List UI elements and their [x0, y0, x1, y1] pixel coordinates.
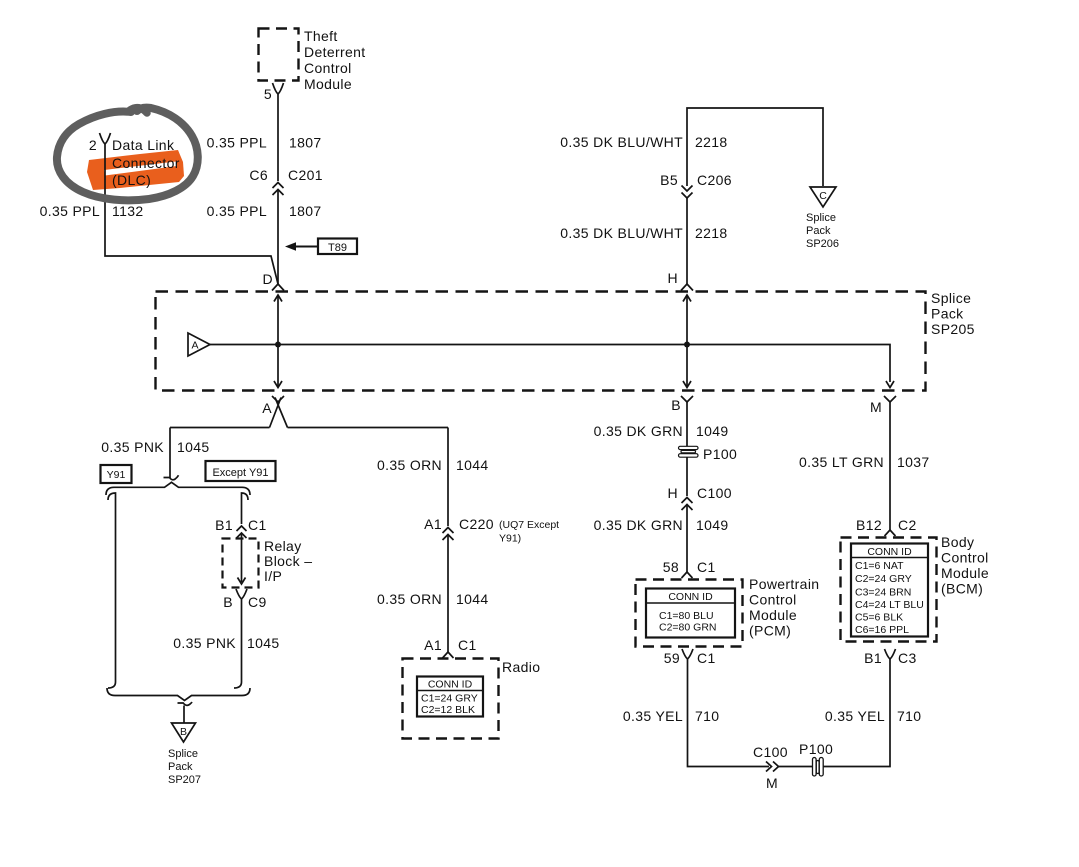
svg-text:0.35 PPL: 0.35 PPL: [207, 135, 267, 151]
svg-text:C3=24 BRN: C3=24 BRN: [855, 587, 911, 599]
svg-text:C3: C3: [898, 650, 917, 666]
svg-text:B1: B1: [864, 650, 882, 666]
svg-text:C201: C201: [288, 167, 323, 183]
svg-text:(BCM): (BCM): [941, 581, 983, 597]
svg-text:710: 710: [695, 708, 719, 724]
wire fork at node A: [170, 398, 448, 428]
BCM entry terminal pin B12 / C2: [856, 517, 917, 536]
svg-text:C220: C220: [459, 516, 494, 532]
wire 710 (0.35 YEL) right segment: [823, 659, 921, 767]
svg-text:0.35 PPL: 0.35 PPL: [40, 203, 100, 219]
option label Except Y91: [206, 461, 276, 481]
svg-text:Relay: Relay: [264, 538, 302, 554]
svg-text:2218: 2218: [695, 225, 728, 241]
svg-text:0.35 PNK: 0.35 PNK: [101, 439, 164, 455]
wire 1049 (0.35 DK GRN) from node B to P100: [594, 402, 729, 447]
svg-text:Module: Module: [941, 565, 989, 581]
svg-text:C1: C1: [697, 650, 716, 666]
node A exit terminal of splice pack SP205: [262, 396, 284, 416]
svg-text:0.35 PPL: 0.35 PPL: [207, 203, 267, 219]
svg-text:SP206: SP206: [806, 238, 839, 250]
wire: Y91 option branch: [108, 493, 116, 688]
svg-text:Control: Control: [941, 550, 989, 566]
svg-text:C5=6 BLK: C5=6 BLK: [855, 612, 903, 624]
callout T89 with arrow: [285, 239, 357, 255]
module: Powertrain Control Module (PCM): [636, 576, 820, 647]
svg-text:1807: 1807: [289, 135, 322, 151]
BCM exit terminal pin B1 / C3: [864, 649, 916, 666]
wire 1132 (0.35 PPL) from DLC pin 2 to node D: [40, 144, 278, 284]
svg-text:0.35 DK BLU/WHT: 0.35 DK BLU/WHT: [560, 225, 683, 241]
module: Relay Block I/P: [223, 538, 313, 588]
PCM CONN ID table: [646, 589, 735, 638]
svg-text:B: B: [180, 726, 187, 738]
svg-text:C2: C2: [898, 517, 917, 533]
splice pack SP207 triangle B: [168, 723, 201, 786]
svg-text:C: C: [819, 190, 827, 202]
wire 1045 (0.35 PNK) upper segment: [101, 428, 209, 480]
svg-text:A1: A1: [424, 516, 442, 532]
svg-text:Pack: Pack: [168, 761, 193, 773]
connector C1 pin B1 at relay block: [215, 517, 266, 538]
svg-text:B12: B12: [856, 517, 882, 533]
svg-text:B1: B1: [215, 517, 233, 533]
svg-text:2218: 2218: [695, 134, 728, 150]
splice pack SP205 internal bus with triangle A: [188, 333, 894, 388]
node D entry terminal into splice pack SP205: [263, 271, 284, 291]
svg-text:SP205: SP205: [931, 321, 975, 337]
wire 1044 (0.35 ORN) upper segment: [377, 428, 489, 527]
svg-text:(PCM): (PCM): [749, 623, 791, 639]
pin 5 terminal of theft deterrent module: [264, 83, 284, 102]
splice pack SP206 triangle C: [806, 187, 839, 250]
svg-text:Powertrain: Powertrain: [749, 576, 819, 592]
svg-text:CONN ID: CONN ID: [867, 546, 912, 558]
svg-text:0.35 ORN: 0.35 ORN: [377, 591, 442, 607]
junction dot at D branch: [275, 342, 281, 348]
module: Body Control Module (BCM): [841, 534, 990, 642]
wire 2218 (0.35 DK BLU/WHT) from C206 to node H: [560, 198, 727, 284]
svg-text:A: A: [262, 400, 272, 416]
svg-text:CONN ID: CONN ID: [668, 591, 713, 603]
svg-text:H: H: [668, 485, 678, 501]
svg-text:0.35 DK GRN: 0.35 DK GRN: [594, 517, 683, 533]
wire 1049 (0.35 DK GRN) from C100 to PCM: [594, 505, 729, 573]
svg-text:C6=16 PPL: C6=16 PPL: [855, 624, 909, 636]
svg-text:Y91: Y91: [107, 469, 126, 481]
svg-text:Deterrent: Deterrent: [304, 44, 366, 60]
relay block exit terminal pin B / C9: [223, 589, 266, 610]
BCM CONN ID table: [851, 544, 928, 637]
svg-text:59: 59: [664, 650, 680, 666]
svg-text:Splice: Splice: [931, 290, 971, 306]
svg-text:Pack: Pack: [806, 225, 831, 237]
svg-text:1037: 1037: [897, 454, 930, 470]
splice pack SP205 dashed box: [156, 290, 975, 391]
svg-text:0.35 YEL: 0.35 YEL: [623, 708, 683, 724]
svg-text:C4=24 LT BLU: C4=24 LT BLU: [855, 599, 924, 611]
svg-text:Control: Control: [749, 592, 797, 608]
svg-text:I/P: I/P: [264, 568, 282, 584]
svg-text:H: H: [668, 270, 678, 286]
svg-text:Except Y91: Except Y91: [212, 467, 268, 479]
svg-text:T89: T89: [328, 242, 347, 254]
svg-text:1807: 1807: [289, 203, 322, 219]
svg-text:1049: 1049: [696, 423, 729, 439]
svg-text:C206: C206: [697, 172, 732, 188]
svg-text:1045: 1045: [247, 635, 280, 651]
svg-text:A1: A1: [424, 637, 442, 653]
svg-text:CONN ID: CONN ID: [428, 679, 473, 691]
svg-text:0.35 DK GRN: 0.35 DK GRN: [594, 423, 683, 439]
svg-text:C2=80 GRN: C2=80 GRN: [659, 622, 716, 634]
wire 1045 (0.35 PNK) lower segment: [173, 599, 279, 688]
svg-text:Radio: Radio: [502, 659, 540, 675]
svg-text:C6: C6: [249, 167, 268, 183]
node M exit terminal of splice pack SP205: [870, 396, 896, 415]
svg-text:C1=80 BLU: C1=80 BLU: [659, 610, 714, 622]
svg-text:58: 58: [663, 559, 679, 575]
svg-text:710: 710: [897, 708, 921, 724]
wire 710 (0.35 YEL) left segment: [623, 659, 769, 767]
svg-text:Module: Module: [304, 76, 352, 92]
svg-text:(UQ7 Except: (UQ7 Except: [499, 519, 559, 531]
svg-text:M: M: [766, 775, 778, 791]
svg-text:Theft: Theft: [304, 28, 338, 44]
svg-text:Connector: Connector: [112, 155, 180, 171]
svg-text:C1: C1: [248, 517, 267, 533]
svg-text:Splice: Splice: [806, 212, 836, 224]
svg-text:Y91): Y91): [499, 533, 521, 545]
svg-text:SP207: SP207: [168, 774, 201, 786]
svg-text:C2=24 GRY: C2=24 GRY: [855, 573, 912, 585]
wire segment C100 to P100 (bottom): [779, 766, 813, 768]
connector C201 pin C6: [249, 167, 322, 195]
svg-text:1044: 1044: [456, 457, 489, 473]
connector: Data Link Connector pin 2: [89, 133, 180, 188]
svg-text:1045: 1045: [177, 439, 210, 455]
svg-text:C1=24 GRY: C1=24 GRY: [421, 693, 478, 705]
svg-text:C2=12 BLK: C2=12 BLK: [421, 704, 475, 716]
svg-text:P100: P100: [799, 741, 833, 757]
connector C220 pin A1: [424, 516, 559, 545]
radio CONN ID table: [417, 677, 483, 717]
wire 1049 (0.35 DK GRN) from P100 to C100: [686, 457, 688, 496]
module: Radio: [403, 659, 541, 739]
svg-text:C100: C100: [753, 744, 788, 760]
connector C100 pin H: [668, 485, 732, 510]
connector C206 pin B5: [660, 172, 732, 198]
svg-text:Module: Module: [749, 607, 797, 623]
svg-text:A: A: [191, 340, 198, 352]
svg-text:P100: P100: [703, 446, 737, 462]
hand-drawn circle annotation around DLC: [57, 108, 198, 201]
grommet P100 (bottom): [799, 741, 833, 776]
grommet P100 (upper): [679, 446, 738, 462]
svg-text:C1=6 NAT: C1=6 NAT: [855, 560, 904, 572]
svg-text:B5: B5: [660, 172, 678, 188]
svg-text:C9: C9: [248, 594, 267, 610]
svg-text:0.35 YEL: 0.35 YEL: [825, 708, 885, 724]
svg-text:Pack: Pack: [931, 306, 964, 322]
radio entry terminal pin A1 / C1: [424, 637, 476, 658]
svg-text:Control: Control: [304, 60, 352, 76]
svg-text:0.35 ORN: 0.35 ORN: [377, 457, 442, 473]
svg-text:5: 5: [264, 86, 272, 102]
merge brace to splice pack SP207: [107, 688, 250, 723]
wire 1807 (0.35 PPL) from C201 to node D: [207, 190, 322, 285]
option label Y91: [101, 465, 132, 483]
splice pack internal branch at H/B with arrowheads: [683, 295, 691, 388]
svg-text:0.35 PNK: 0.35 PNK: [173, 635, 236, 651]
node B exit terminal of splice pack SP205: [671, 396, 693, 413]
svg-text:D: D: [263, 271, 273, 287]
svg-text:C1: C1: [458, 637, 477, 653]
svg-text:B: B: [223, 594, 233, 610]
wire through relay block with arrowhead: [238, 533, 246, 584]
option split brace: [106, 482, 250, 495]
svg-text:0.35 LT GRN: 0.35 LT GRN: [799, 454, 884, 470]
svg-text:M: M: [870, 399, 882, 415]
svg-text:0.35 DK BLU/WHT: 0.35 DK BLU/WHT: [560, 134, 683, 150]
wire: Except Y91 option branch upper: [242, 493, 249, 524]
svg-text:1132: 1132: [112, 203, 144, 219]
wire 1044 (0.35 ORN) lower segment: [377, 535, 489, 653]
svg-text:1049: 1049: [696, 517, 729, 533]
svg-text:Body: Body: [941, 534, 974, 550]
svg-text:2: 2: [89, 137, 97, 153]
svg-text:Block –: Block –: [264, 553, 312, 569]
svg-text:C1: C1: [697, 559, 716, 575]
wire 2218 (0.35 DK BLU/WHT) upper run to C206 and over to splice pack SP206: [560, 108, 823, 186]
svg-text:B: B: [671, 397, 681, 413]
module: Theft Deterrent Control Module: [259, 28, 366, 92]
wire 1037 (0.35 LT GRN) from node M to BCM: [799, 402, 930, 530]
svg-text:Data Link: Data Link: [112, 137, 175, 153]
highlighter mark over Connector (DLC) text: [87, 150, 184, 190]
splice pack internal branch at D/A with arrowheads: [274, 295, 282, 388]
PCM entry terminal pin 58 / C1: [663, 559, 716, 578]
node H entry terminal into splice pack SP205: [668, 270, 693, 291]
svg-text:Splice: Splice: [168, 748, 198, 760]
svg-text:C100: C100: [697, 485, 732, 501]
PCM exit terminal pin 59 / C1: [664, 649, 716, 666]
wire 1807 (0.35 PPL) from pin 5 to C201: [207, 94, 322, 181]
connector C100 pin M (bottom): [753, 744, 788, 791]
svg-text:1044: 1044: [456, 591, 489, 607]
junction dot at H branch: [684, 342, 690, 348]
svg-text:(DLC): (DLC): [112, 172, 151, 188]
